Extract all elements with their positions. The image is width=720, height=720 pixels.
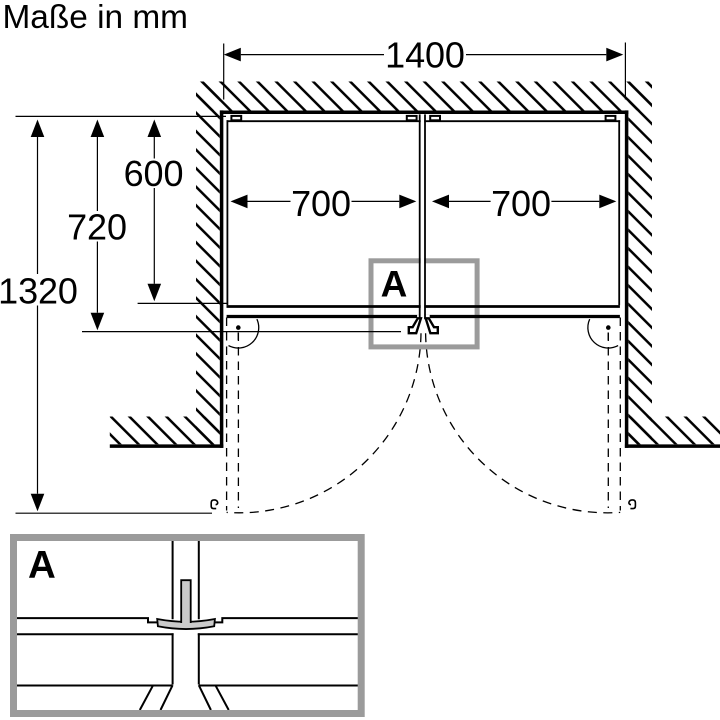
svg-text:600: 600 (124, 153, 184, 194)
svg-text:700: 700 (491, 183, 551, 224)
svg-text:720: 720 (67, 206, 127, 247)
svg-text:1400: 1400 (385, 35, 465, 76)
svg-text:1320: 1320 (0, 271, 78, 312)
svg-text:Maße in mm: Maße in mm (3, 0, 189, 35)
svg-text:A: A (381, 263, 408, 304)
svg-text:A: A (28, 544, 56, 587)
svg-text:700: 700 (291, 183, 351, 224)
